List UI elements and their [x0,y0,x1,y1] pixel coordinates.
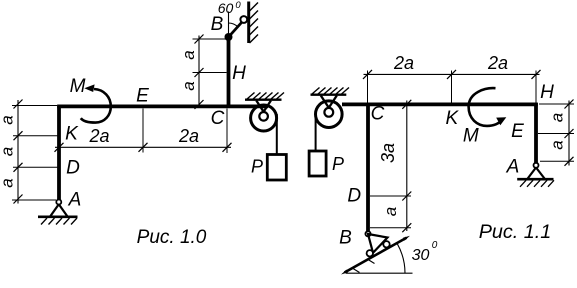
rope down to P [276,114,278,155]
svg-text:C: C [211,108,225,129]
extension line at H level [193,72,227,74]
extension at A level [12,199,56,201]
extension at K level [13,135,58,137]
svg-text:a: a [381,207,400,216]
svg-text:B: B [339,228,352,249]
extension at A level [540,160,574,162]
svg-text:H: H [540,82,554,103]
pin at B [365,231,370,236]
svg-text:0: 0 [432,240,438,251]
pulley wheel [251,105,277,131]
extension line at C [226,109,228,154]
extension above H [535,71,537,103]
svg-text:2a: 2a [487,53,508,73]
extension at D level [370,195,411,197]
extension above K [451,71,453,103]
member C-H-B (vertical) [227,37,231,108]
svg-text:B: B [211,14,224,35]
extension at beam level [12,105,57,107]
svg-text:K: K [445,108,459,129]
svg-text:A: A [506,157,520,178]
svg-text:E: E [511,121,524,142]
pulley bracket [256,101,271,112]
weight P [267,155,286,181]
extension at D level [13,166,58,168]
extension at H level [539,103,574,105]
svg-text:a: a [179,81,198,90]
inclined surface 30deg [345,238,407,273]
svg-text:a: a [548,113,567,122]
extension at E level [538,133,574,135]
pin support A [56,200,61,205]
left dimension line (a,a,a) [17,100,19,204]
svg-text:a: a [0,147,17,156]
beam C-K-E-H (horizontal) [342,103,538,107]
dimension line 2a-2a (below beam) [55,146,231,148]
svg-text:2a: 2a [393,53,414,73]
extension at B level [370,227,411,229]
svg-text:E: E [136,86,149,107]
svg-text:P: P [332,154,344,174]
svg-text:D: D [66,158,80,179]
svg-text:M: M [70,76,86,97]
svg-text:2a: 2a [88,126,109,146]
moment M arc [81,89,111,123]
member C-D-B (vertical) [366,103,370,232]
svg-text:0: 0 [235,0,241,11]
extension line at B level [193,38,227,40]
node B (hinge dot) [225,33,233,41]
svg-text:A: A [68,190,82,211]
svg-text:3a: 3a [378,143,398,163]
right dimension line a-a [568,101,570,166]
svg-text:C: C [371,104,385,125]
moment M arc (right fig) [469,88,502,126]
ground at A (right fig) [517,178,553,181]
pulley hub [259,112,268,121]
svg-text:a: a [0,115,17,124]
roller 1 [383,241,389,247]
pulley bracket (right fig) [321,96,337,108]
svg-text:P: P [251,157,263,177]
dimension line B-H-C (a,a) [198,36,200,107]
svg-text:K: K [65,124,79,145]
30deg arc [397,244,405,273]
member H-E-A (vertical right) [534,103,538,164]
60deg reference line [228,12,230,35]
pulley ceiling (right fig) [311,93,347,95]
svg-text:2a: 2a [178,126,199,146]
extension line at E [142,109,144,153]
svg-text:D: D [347,186,361,207]
wall pin circle [240,16,247,23]
link rod B-wall [229,20,244,37]
horizontal reference at 30deg [346,272,413,274]
roller 2 [367,250,373,256]
svg-text:H: H [232,63,246,84]
60deg arc [229,23,238,27]
svg-text:Рис. 1.1: Рис. 1.1 [479,221,552,243]
svg-text:a: a [179,50,198,59]
svg-text:a: a [548,140,567,149]
svg-text:Рис. 1.0: Рис. 1.0 [137,227,207,248]
svg-text:30: 30 [412,247,430,264]
3a/a dimension line (right of member C-D-B) [406,101,408,232]
pulley wheel (right fig) [316,101,343,128]
svg-text:M: M [463,126,479,147]
beam corner-E-C (horizontal member + rope to pulley) [57,105,268,109]
weight P (right fig) [309,151,326,176]
pin support A (right fig) [534,163,539,168]
roller bracket at B [368,234,388,253]
rope down to P (right fig) [315,110,317,152]
ground at A [38,216,78,219]
svg-text:a: a [0,178,17,187]
wall (hatched, vertical) [247,2,250,44]
column A-D-K (vertical member) [57,105,61,200]
extension above C [367,71,369,103]
incline hatch [353,269,360,273]
pulley ceiling (hatched) [245,98,282,100]
top dimension line 2a-2a [364,73,540,75]
pulley hub (right fig) [324,108,333,117]
